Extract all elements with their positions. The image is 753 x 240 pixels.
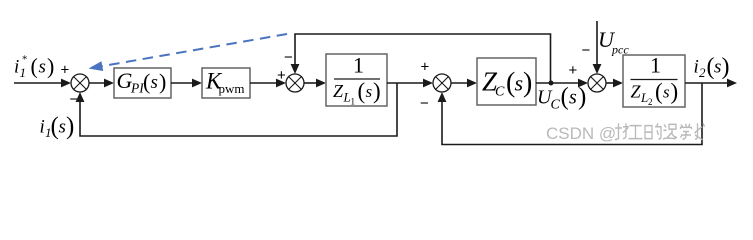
svg-text:−: − (284, 49, 293, 66)
svg-text:ZC(s): ZC(s) (482, 67, 532, 100)
wire top feedback Uc to S2 (295, 34, 551, 83)
summing junction S2 (286, 74, 304, 92)
hanzi chi (663, 124, 677, 139)
svg-text:UC(s): UC(s) (537, 84, 586, 113)
wire S1 to GPI (89, 82, 106, 84)
hanzi gong (629, 126, 643, 139)
hanzi xue (681, 124, 692, 139)
svg-text:+: + (421, 59, 430, 76)
svg-text:+: + (569, 62, 578, 79)
wire Upcc down to S4 (596, 21, 598, 66)
wire S2 to ZL1 (304, 82, 318, 84)
svg-text:−: − (420, 95, 429, 112)
block Kpwm (202, 68, 250, 98)
blue dashed annotation arrow (101, 34, 287, 66)
wire S3 to ZC (451, 82, 469, 84)
summing junction S4 (588, 74, 606, 92)
summing junction S1 (71, 74, 89, 92)
wire Kpwm to S2 (250, 82, 278, 84)
wire GPI to Kpwm (171, 82, 194, 84)
hanzi zhang (695, 123, 705, 140)
wire output i2 (685, 82, 729, 84)
block 1/ZL2 (623, 55, 685, 107)
block 1/ZL1 (326, 54, 387, 106)
hanzi de (645, 123, 661, 139)
summing junction S3 (433, 74, 451, 92)
wire ZC to S4 with node (536, 82, 580, 84)
svg-text:1: 1 (650, 53, 661, 78)
wire input (14, 82, 63, 84)
svg-text:+: + (61, 62, 70, 79)
svg-text:1: 1 (353, 53, 364, 78)
wire ZL1 to S3 (387, 82, 425, 84)
svg-text:+: + (277, 67, 286, 84)
block ZC (477, 58, 536, 105)
hanzi da (615, 123, 629, 140)
node dot Uc (549, 81, 554, 86)
wire branch i2 feedback to S3 (442, 83, 702, 145)
wire S4 to ZL2 (606, 82, 615, 84)
wire branch i1 down (80, 83, 397, 136)
svg-text:i1(s): i1(s) (40, 113, 75, 140)
block GPI (114, 68, 171, 98)
svg-text:CSDN @: CSDN @ (546, 124, 616, 143)
svg-text:−: − (582, 42, 591, 59)
